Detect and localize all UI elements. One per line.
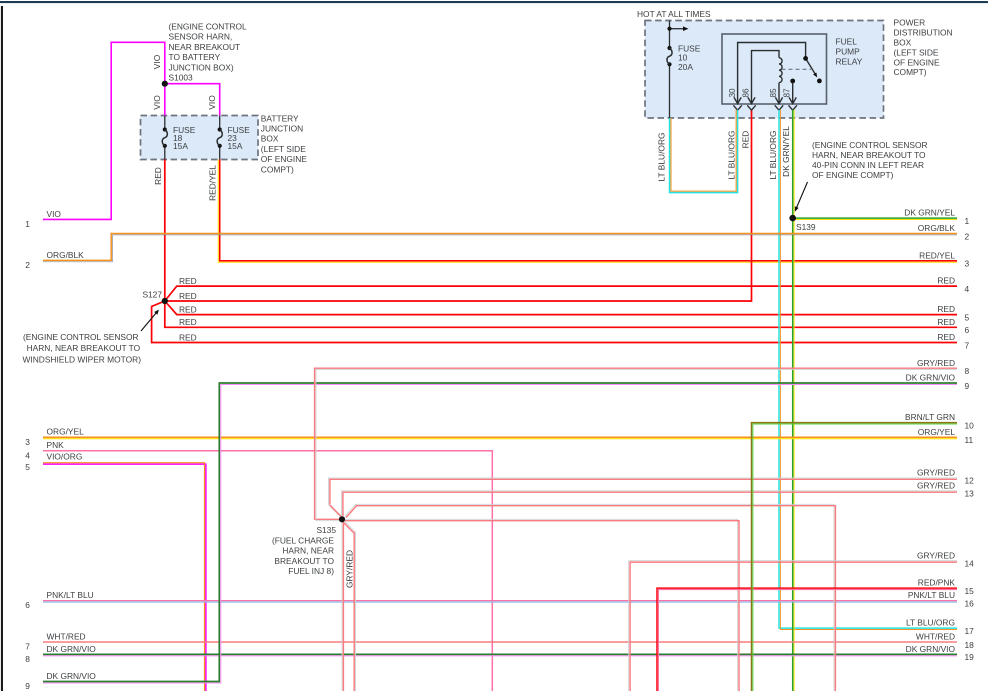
- svg-text:2: 2: [25, 260, 30, 270]
- svg-text:RED/YEL: RED/YEL: [207, 165, 217, 201]
- svg-text:13: 13: [965, 489, 975, 499]
- svg-text:JUNCTION BOX): JUNCTION BOX): [169, 62, 234, 72]
- svg-text:(ENGINE CONTROL SENSOR: (ENGINE CONTROL SENSOR: [23, 332, 139, 342]
- svg-text:7: 7: [25, 642, 30, 652]
- svg-text:12: 12: [965, 476, 975, 486]
- svg-text:10: 10: [965, 420, 975, 430]
- svg-text:6: 6: [25, 600, 30, 610]
- svg-text:PNK/LT BLU: PNK/LT BLU: [47, 590, 94, 600]
- svg-text:15A: 15A: [228, 141, 243, 151]
- svg-text:DK GRN/VIO: DK GRN/VIO: [47, 644, 97, 654]
- svg-text:RED: RED: [153, 167, 163, 185]
- svg-text:BRN/LT GRN: BRN/LT GRN: [905, 412, 955, 422]
- svg-text:14: 14: [965, 559, 975, 569]
- svg-text:(FUEL CHARGE: (FUEL CHARGE: [272, 536, 334, 546]
- svg-text:PNK/LT BLU: PNK/LT BLU: [908, 590, 955, 600]
- svg-text:S127: S127: [142, 290, 162, 300]
- svg-text:RED: RED: [179, 276, 197, 286]
- svg-text:4: 4: [965, 284, 970, 294]
- svg-text:BOX: BOX: [261, 134, 279, 144]
- svg-text:6: 6: [965, 325, 970, 335]
- svg-text:VIO: VIO: [152, 95, 162, 110]
- svg-text:COMPT): COMPT): [894, 67, 927, 77]
- svg-text:LT BLU/ORG: LT BLU/ORG: [906, 618, 955, 628]
- svg-text:S139: S139: [796, 222, 816, 232]
- svg-text:OF ENGINE: OF ENGINE: [894, 57, 940, 67]
- svg-text:JUNCTION: JUNCTION: [261, 124, 303, 134]
- svg-text:ORG/YEL: ORG/YEL: [47, 427, 85, 437]
- svg-text:9: 9: [25, 681, 30, 691]
- svg-text:2: 2: [965, 231, 970, 241]
- svg-text:LT BLU/ORG: LT BLU/ORG: [768, 130, 778, 179]
- svg-text:GRY/RED: GRY/RED: [917, 480, 955, 490]
- svg-text:RELAY: RELAY: [836, 57, 863, 67]
- svg-text:9: 9: [965, 381, 970, 391]
- svg-text:8: 8: [25, 654, 30, 664]
- svg-text:BREAKOUT TO: BREAKOUT TO: [274, 556, 334, 566]
- svg-text:HARN, NEAR BREAKOUT TO: HARN, NEAR BREAKOUT TO: [812, 150, 926, 160]
- svg-text:1: 1: [25, 219, 30, 229]
- svg-text:S135: S135: [316, 525, 336, 535]
- svg-text:RED/PNK: RED/PNK: [918, 578, 956, 588]
- svg-text:(ENGINE CONTROL: (ENGINE CONTROL: [169, 22, 248, 32]
- svg-text:(ENGINE CONTROL SENSOR: (ENGINE CONTROL SENSOR: [812, 140, 928, 150]
- svg-text:ORG/BLK: ORG/BLK: [47, 250, 85, 260]
- svg-text:VIO: VIO: [152, 54, 162, 69]
- svg-text:RED: RED: [937, 304, 955, 314]
- svg-text:20A: 20A: [678, 62, 693, 72]
- svg-text:RED: RED: [179, 332, 197, 342]
- svg-text:WHT/RED: WHT/RED: [47, 631, 86, 641]
- svg-text:3: 3: [965, 259, 970, 269]
- svg-text:GRY/RED: GRY/RED: [917, 358, 955, 368]
- svg-text:PNK: PNK: [47, 440, 65, 450]
- svg-text:DK GRN/YEL: DK GRN/YEL: [781, 126, 791, 177]
- svg-text:GRY/RED: GRY/RED: [917, 468, 955, 478]
- svg-text:ORG/YEL: ORG/YEL: [918, 427, 956, 437]
- svg-text:PUMP: PUMP: [836, 47, 861, 57]
- svg-text:VIO/ORG: VIO/ORG: [47, 452, 83, 462]
- svg-text:POWER: POWER: [894, 18, 926, 28]
- svg-text:4: 4: [25, 450, 30, 460]
- svg-text:RED: RED: [179, 304, 197, 314]
- svg-text:OF ENGINE COMPT): OF ENGINE COMPT): [812, 170, 894, 180]
- svg-text:11: 11: [965, 435, 974, 445]
- svg-text:SENSOR HARN,: SENSOR HARN,: [169, 32, 233, 42]
- svg-text:LT BLU/ORG: LT BLU/ORG: [657, 132, 667, 181]
- svg-text:RED/YEL: RED/YEL: [919, 250, 955, 260]
- svg-text:COMPT): COMPT): [261, 164, 294, 174]
- svg-text:RED: RED: [741, 131, 751, 149]
- svg-text:18: 18: [965, 640, 975, 650]
- svg-text:VIO: VIO: [207, 95, 217, 110]
- svg-text:HARN, NEAR: HARN, NEAR: [282, 546, 334, 556]
- svg-text:RED: RED: [179, 291, 197, 301]
- svg-text:87: 87: [782, 88, 791, 98]
- svg-text:(LEFT SIDE: (LEFT SIDE: [261, 144, 306, 154]
- svg-text:LT BLU/ORG: LT BLU/ORG: [727, 130, 737, 179]
- svg-text:86: 86: [742, 88, 751, 98]
- svg-text:DK GRN/VIO: DK GRN/VIO: [47, 671, 97, 681]
- svg-text:5: 5: [965, 312, 970, 322]
- svg-text:NEAR BREAKOUT: NEAR BREAKOUT: [169, 42, 241, 52]
- svg-text:8: 8: [965, 366, 970, 376]
- svg-text:FUEL INJ 8): FUEL INJ 8): [288, 566, 334, 576]
- svg-text:TO BATTERY: TO BATTERY: [169, 52, 221, 62]
- svg-text:WINDSHIELD WIPER MOTOR): WINDSHIELD WIPER MOTOR): [23, 354, 142, 364]
- svg-text:GRY/RED: GRY/RED: [917, 550, 955, 560]
- svg-text:1: 1: [965, 216, 970, 226]
- svg-text:RED: RED: [937, 332, 955, 342]
- svg-text:S1003: S1003: [169, 73, 194, 83]
- svg-text:DK GRN/YEL: DK GRN/YEL: [904, 208, 955, 218]
- svg-text:OF ENGINE: OF ENGINE: [261, 154, 307, 164]
- svg-text:BATTERY: BATTERY: [261, 113, 299, 123]
- svg-text:HARN, NEAR BREAKOUT TO: HARN, NEAR BREAKOUT TO: [27, 343, 141, 353]
- svg-text:15: 15: [965, 586, 975, 596]
- svg-text:85: 85: [769, 88, 778, 98]
- svg-text:DK GRN/VIO: DK GRN/VIO: [906, 644, 956, 654]
- svg-text:RED: RED: [937, 276, 955, 286]
- svg-text:ORG/BLK: ORG/BLK: [918, 223, 956, 233]
- svg-text:BOX: BOX: [894, 38, 912, 48]
- svg-text:30: 30: [728, 88, 737, 98]
- svg-text:7: 7: [965, 340, 970, 350]
- svg-text:16: 16: [965, 598, 975, 608]
- svg-text:19: 19: [965, 652, 975, 662]
- svg-text:DK GRN/VIO: DK GRN/VIO: [906, 373, 956, 383]
- svg-text:VIO: VIO: [47, 209, 62, 219]
- svg-text:17: 17: [965, 626, 975, 636]
- svg-text:15A: 15A: [173, 141, 188, 151]
- svg-text:40-PIN CONN IN LEFT REAR: 40-PIN CONN IN LEFT REAR: [812, 160, 924, 170]
- svg-text:(LEFT SIDE: (LEFT SIDE: [894, 47, 939, 57]
- svg-text:WHT/RED: WHT/RED: [916, 632, 955, 642]
- svg-text:5: 5: [25, 462, 30, 472]
- svg-text:RED: RED: [937, 317, 955, 327]
- svg-text:3: 3: [25, 437, 30, 447]
- svg-text:DISTRIBUTION: DISTRIBUTION: [894, 28, 953, 38]
- svg-text:GRY/RED: GRY/RED: [345, 550, 355, 588]
- svg-text:RED: RED: [179, 317, 197, 327]
- svg-text:HOT AT ALL TIMES: HOT AT ALL TIMES: [637, 9, 711, 19]
- svg-text:FUEL: FUEL: [836, 36, 858, 46]
